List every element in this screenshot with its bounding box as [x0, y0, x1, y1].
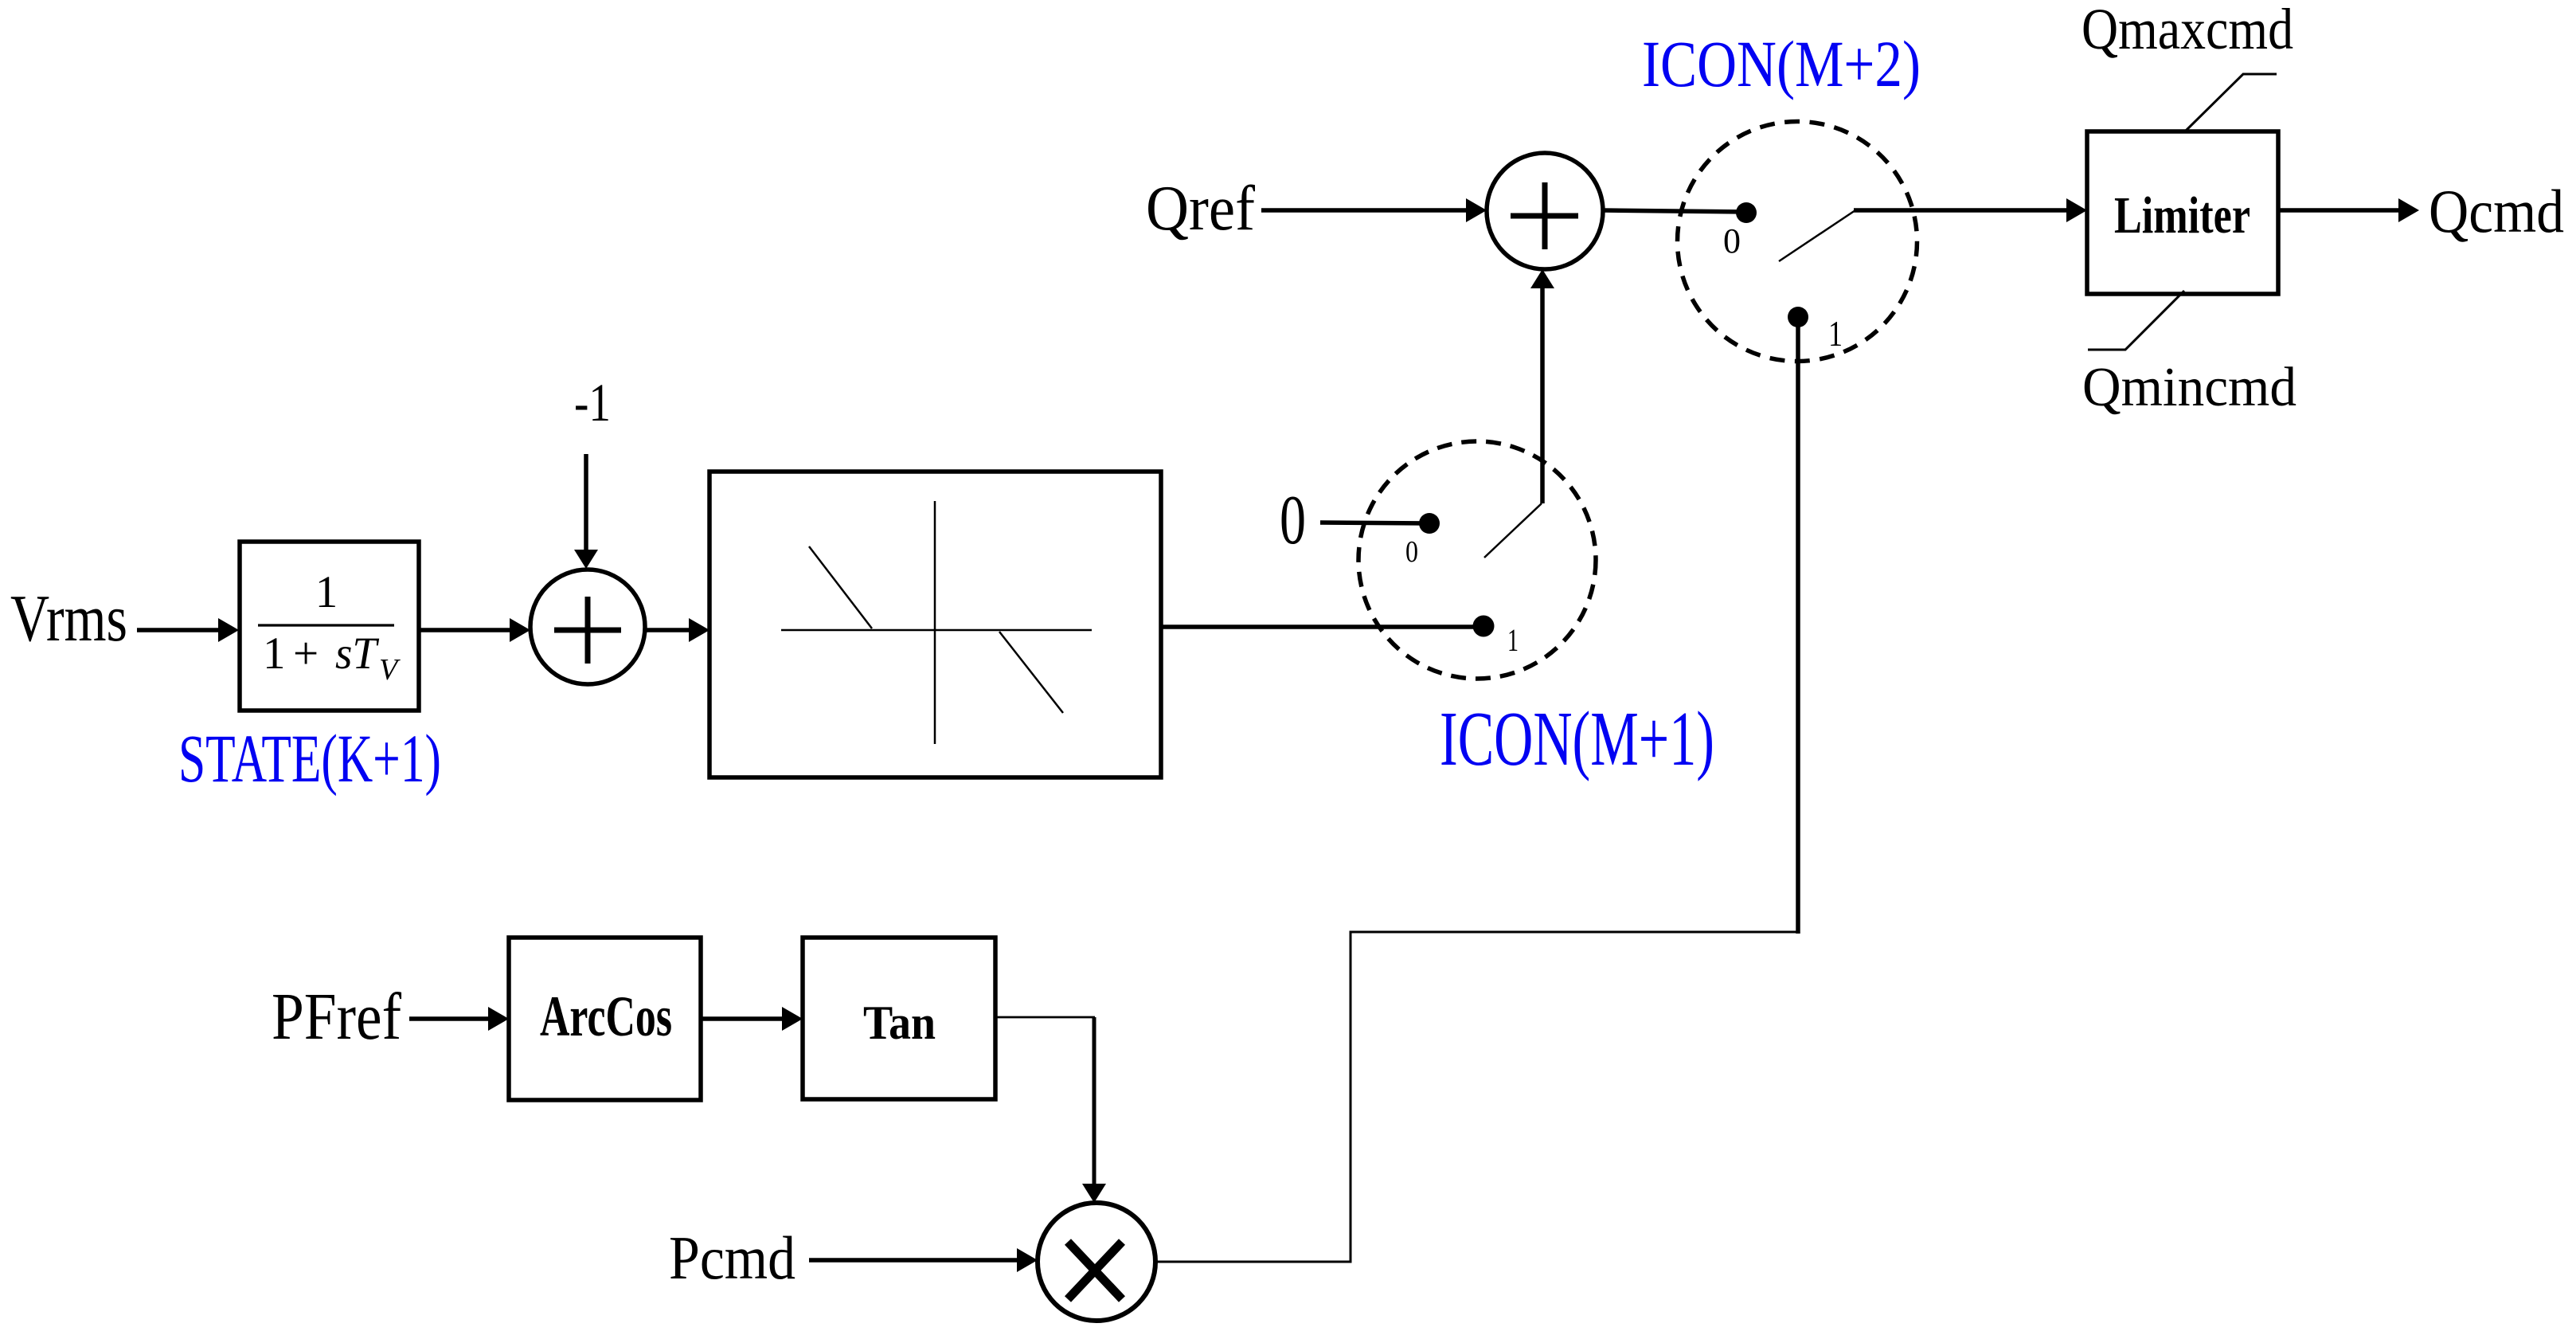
svg-text:0: 0 [1723, 221, 1741, 260]
svg-text:-1: -1 [574, 372, 611, 433]
svg-text:1: 1 [1507, 622, 1519, 658]
svg-text:Qref: Qref [1146, 174, 1255, 244]
svg-text:V: V [379, 653, 401, 687]
svg-text:Limiter: Limiter [2114, 186, 2250, 245]
svg-text:Qcmd: Qcmd [2429, 177, 2564, 245]
svg-text:Qmaxcmd: Qmaxcmd [2082, 0, 2293, 61]
svg-text:sT: sT [335, 628, 380, 679]
svg-text:0: 0 [1405, 535, 1418, 569]
svg-text:1: 1 [315, 567, 338, 617]
svg-text:Tan: Tan [863, 996, 936, 1049]
svg-text:ICON(M+2): ICON(M+2) [1642, 27, 1921, 100]
svg-text:Qmincmd: Qmincmd [2082, 357, 2297, 418]
svg-text:1: 1 [1828, 314, 1843, 354]
svg-text:Pcmd: Pcmd [669, 1224, 795, 1292]
svg-text:STATE(K+1): STATE(K+1) [178, 720, 441, 797]
svg-text:Vrms: Vrms [10, 581, 127, 656]
svg-text:1: 1 [263, 628, 286, 679]
svg-text:ICON(M+1): ICON(M+1) [1440, 696, 1714, 782]
svg-text:PFref: PFref [272, 980, 401, 1054]
svg-text:ArcCos: ArcCos [540, 985, 672, 1048]
svg-text:+: + [293, 628, 319, 679]
svg-text:0: 0 [1280, 482, 1306, 559]
